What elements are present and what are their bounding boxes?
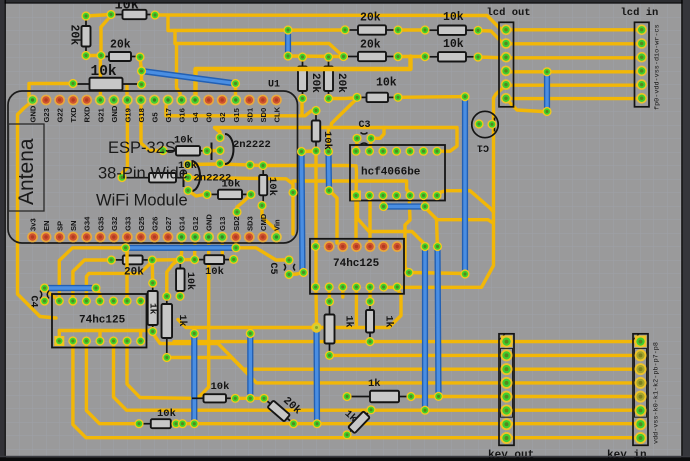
wire hcf right	[437, 191, 494, 212]
svg-text:20k: 20k	[360, 12, 381, 25]
wire	[126, 248, 128, 301]
wire	[289, 273, 303, 275]
pad	[117, 173, 126, 182]
pad	[433, 242, 442, 251]
svg-text:74hc125: 74hc125	[333, 258, 380, 270]
module pin G32 (bottom 7)	[108, 232, 119, 243]
pad	[283, 51, 292, 60]
wire (bottom copper)	[45, 285, 97, 291]
hcf4066be pin bottom 6	[419, 191, 428, 200]
svg-text:20k: 20k	[68, 25, 81, 46]
IC hcf4066be outline	[350, 145, 445, 201]
key in pin 3	[635, 363, 647, 375]
pad	[68, 79, 77, 88]
resistor R22 1k	[366, 302, 374, 342]
resistor R27 1k (diagonal)	[344, 407, 374, 438]
pad	[393, 93, 402, 102]
module pin TXD (top 4)	[68, 95, 79, 106]
wire	[354, 196, 357, 244]
pad	[379, 202, 388, 211]
hcf4066be pin bottom 3	[378, 191, 387, 200]
lcd in pin 4	[636, 66, 647, 77]
svg-text:10k: 10k	[205, 266, 224, 278]
resistor R12 10k	[312, 111, 321, 151]
74hc125 U4 pin top 2	[68, 296, 77, 305]
pad	[365, 297, 374, 306]
wire	[193, 237, 197, 260]
pad	[460, 269, 469, 278]
resistor R10 20k	[298, 57, 307, 99]
svg-text:Antena: Antena	[15, 138, 38, 205]
module pin G21 (top 6)	[95, 95, 106, 106]
module pin CLK (top 19)	[271, 95, 282, 106]
resistor R28 10k	[176, 262, 185, 296]
svg-text:G35: G35	[96, 216, 105, 231]
resistor R17 20k	[111, 256, 152, 265]
module pin G4 (top 13)	[190, 95, 201, 106]
wire G4 long rail	[196, 57, 411, 101]
svg-text:C1: C1	[477, 142, 489, 153]
ESP-32S module U1 outline	[8, 91, 298, 243]
module pin G17 (top 11)	[163, 95, 174, 106]
svg-text:10k: 10k	[91, 64, 117, 80]
pad	[202, 146, 211, 155]
module pin SD2 (bottom 16)	[230, 232, 241, 243]
pad	[404, 268, 413, 277]
pad	[289, 419, 298, 428]
resistor R23 10k	[139, 419, 176, 428]
pad	[178, 419, 187, 428]
wire to blue	[327, 128, 330, 152]
svg-text:C4: C4	[28, 296, 39, 308]
pad	[215, 146, 224, 155]
wire link	[302, 149, 317, 153]
74hc125 U4 pin bottom 3	[82, 336, 91, 345]
wire	[150, 260, 154, 283]
resistor R3 20k	[100, 52, 140, 61]
pad	[158, 146, 167, 155]
74hc125 U3 pin top 1	[311, 242, 320, 251]
lcd out pin 5	[501, 79, 512, 90]
module pin G18 (top 9)	[136, 95, 147, 106]
wire lcd pin6 to via	[506, 99, 547, 112]
svg-text:G26: G26	[150, 217, 159, 231]
svg-text:10k: 10k	[157, 408, 176, 420]
svg-text:10k: 10k	[443, 38, 464, 51]
wire G17 rail	[166, 100, 316, 116]
wire over 20k bodies	[298, 67, 341, 71]
capacitor C3	[361, 133, 368, 135]
74hc125 U4 pin bottom 6	[122, 336, 131, 345]
wire lcd bus	[507, 83, 641, 86]
pad	[460, 92, 469, 101]
svg-text:lcd in: lcd in	[621, 7, 659, 19]
pad	[352, 93, 361, 102]
resistor R1 10k	[111, 10, 155, 19]
wire row y273	[409, 273, 465, 274]
svg-text:U1: U1	[268, 80, 280, 91]
svg-text:74hc125: 74hc125	[79, 315, 126, 327]
pad	[420, 202, 429, 211]
pad	[137, 80, 146, 89]
wire stub to G15	[234, 84, 237, 100]
svg-text:G21: G21	[96, 107, 105, 122]
key in pin 7	[635, 418, 647, 430]
module pin RXD (top 5)	[81, 95, 92, 106]
wire	[355, 287, 358, 328]
hcf4066be pin bottom 2	[365, 191, 374, 200]
wire row y260	[152, 258, 194, 262]
pad	[162, 353, 171, 362]
pad	[183, 186, 192, 195]
pad	[393, 25, 402, 34]
resistor R24 10k	[192, 394, 235, 402]
svg-text:C3: C3	[359, 120, 371, 131]
svg-text:10k: 10k	[178, 160, 197, 172]
wire (bottom copper)	[544, 72, 550, 112]
wire row y165 to hcf pin1	[188, 164, 357, 196]
wire lcd bus	[507, 97, 641, 100]
antenna box	[9, 124, 45, 211]
module pin G23 (top 2)	[41, 95, 52, 106]
lcd out pin 2	[501, 38, 512, 49]
module pin SD1 (top 17)	[244, 95, 255, 106]
svg-text:G22: G22	[56, 108, 65, 122]
key out pin 2	[501, 349, 513, 361]
pad	[420, 242, 429, 251]
wire lcd bus	[507, 42, 641, 45]
pad	[259, 394, 268, 403]
74hc125 U4 pin top 4	[95, 296, 104, 305]
wire to G19	[125, 86, 129, 100]
module pin CMD (bottom 18)	[257, 232, 268, 243]
pad	[231, 243, 240, 252]
svg-text:SD0: SD0	[259, 108, 268, 123]
capacitor C1	[472, 111, 498, 137]
pad	[393, 52, 402, 61]
key in pin 2	[635, 349, 647, 361]
pad	[434, 392, 443, 401]
wire to Vin	[262, 206, 278, 238]
capacitor C5	[284, 264, 286, 271]
wire diag	[331, 100, 356, 128]
svg-text:EN: EN	[42, 220, 51, 231]
pad	[324, 147, 333, 156]
pad	[473, 26, 482, 35]
wire curve to U4 pin2	[73, 260, 111, 301]
wire	[221, 237, 224, 254]
wire to lcd out pin1	[155, 15, 505, 30]
svg-text:SD1: SD1	[245, 107, 254, 123]
module pin G15 (top 16)	[230, 95, 241, 106]
wire hcf interior to pin5	[293, 181, 410, 196]
module pin SP (bottom 3)	[54, 232, 65, 243]
pad	[246, 190, 255, 199]
wire row y43	[175, 31, 344, 57]
lcd out pin 3	[501, 52, 512, 63]
pad	[175, 292, 184, 301]
svg-text:G13: G13	[218, 217, 227, 231]
74hc125 U3 pin top 4	[351, 241, 362, 252]
wire	[139, 331, 142, 342]
svg-text:TXD: TXD	[69, 107, 78, 123]
wire Q1 rail to hcf	[215, 128, 458, 152]
module pin G5 (top 10)	[149, 95, 160, 106]
pad	[229, 255, 238, 264]
pad	[134, 419, 143, 428]
wire to lcd out pin2	[478, 31, 505, 44]
wire	[249, 328, 252, 334]
pad	[190, 255, 199, 264]
wire curve to U4 pin3	[86, 262, 152, 302]
pad	[176, 255, 185, 264]
module pin SD0 (top 18)	[257, 95, 268, 106]
svg-text:SD2: SD2	[232, 216, 241, 231]
pad	[190, 329, 199, 338]
wire	[398, 95, 465, 99]
lcd out pin 1	[501, 25, 512, 36]
key in pin 1	[635, 336, 647, 348]
wire	[58, 331, 61, 342]
pad	[366, 405, 375, 414]
junction pad	[311, 322, 321, 332]
resistor R14 10k	[122, 173, 184, 182]
74hc125 U3 pin bottom 6	[379, 282, 388, 291]
74hc125 U4 pin1 square pad	[54, 336, 64, 346]
74hc125 U4 pin bottom 1	[55, 336, 64, 345]
pad	[190, 419, 199, 428]
74hc125 U4 pin bottom 4	[95, 336, 104, 345]
key out pin1 square pad	[501, 336, 513, 348]
svg-text:C5: C5	[267, 263, 278, 275]
lcd in pin 5	[636, 79, 647, 90]
svg-text:20k: 20k	[124, 267, 144, 279]
pad	[245, 160, 254, 169]
wire (bottom copper)	[247, 334, 253, 399]
svg-text:SN: SN	[69, 220, 78, 231]
wire key bus 5	[411, 395, 640, 398]
header key out	[499, 334, 514, 446]
resistor R6 10k	[425, 26, 478, 35]
wire	[368, 287, 371, 302]
svg-text:G12: G12	[191, 217, 200, 231]
wire lcd pin5 long rail	[384, 85, 506, 287]
pad	[215, 159, 224, 168]
svg-text:G34: G34	[83, 216, 92, 231]
resistor R21 1k	[325, 302, 335, 356]
wire row y327	[178, 289, 401, 328]
wire	[328, 287, 332, 302]
wire right of 74hc125	[405, 197, 410, 273]
wire curve to U4 pin1	[59, 248, 125, 301]
wire lcd bus	[507, 56, 641, 59]
pad	[171, 419, 180, 428]
pad	[81, 51, 90, 60]
74hc125 U4 pin top 7	[136, 296, 145, 305]
svg-text:1k: 1k	[383, 316, 395, 328]
svg-text:lcd out: lcd out	[487, 7, 531, 19]
lcd out pin 6	[501, 93, 512, 104]
svg-text:ESP-32S: ESP-32S	[108, 139, 176, 157]
hcf4066be pin top 6	[419, 147, 428, 156]
svg-text:GND: GND	[29, 105, 38, 122]
resistor R13 10k	[163, 146, 207, 155]
wire	[423, 197, 425, 207]
pad	[298, 52, 307, 61]
pad	[366, 134, 375, 143]
74hc125 U3 pin bottom 3	[338, 282, 347, 291]
svg-text:20k: 20k	[360, 39, 381, 52]
module pin G14 (bottom 12)	[176, 232, 187, 243]
wire link	[300, 99, 303, 116]
module pin EN (bottom 2)	[41, 232, 52, 243]
wire (bottom copper)	[384, 203, 426, 209]
svg-text:20k: 20k	[110, 39, 131, 52]
lcd out pin 4	[501, 66, 512, 77]
wire	[368, 196, 371, 244]
header lcd out	[499, 22, 514, 107]
pad	[148, 327, 157, 336]
pad	[148, 278, 157, 287]
wire to G21	[99, 56, 103, 101]
svg-text:10k: 10k	[376, 77, 397, 90]
pad	[487, 120, 496, 129]
svg-text:2n2222: 2n2222	[194, 173, 232, 185]
header lcd in	[635, 22, 650, 107]
IC 74hc125 (U4) outline	[52, 294, 147, 348]
svg-text:G0: G0	[205, 112, 214, 122]
key out pin 1	[501, 336, 513, 348]
svg-text:10k: 10k	[184, 272, 196, 290]
resistor R4 10k	[73, 78, 142, 91]
74hc125 U4 pin top 1	[55, 296, 64, 305]
key out pin 3	[501, 363, 513, 375]
key in pin 8	[635, 432, 647, 444]
pad	[232, 207, 241, 216]
svg-text:WiFi Module: WiFi Module	[96, 192, 188, 210]
wire	[341, 287, 344, 297]
wire	[45, 289, 60, 301]
module pin GND (top 7)	[108, 95, 119, 106]
pad	[473, 52, 482, 61]
module pin G16 (top 12)	[176, 95, 187, 106]
svg-text:G5: G5	[150, 112, 159, 123]
wire to 10k	[127, 341, 192, 398]
74hc125 U3 pin top 6	[378, 241, 389, 252]
pad	[542, 107, 551, 116]
svg-text:G27: G27	[164, 217, 173, 231]
svg-text:G33: G33	[123, 217, 132, 231]
wire long vertical x316	[314, 151, 318, 328]
svg-text:1k: 1k	[343, 316, 355, 328]
wire stub	[207, 149, 220, 153]
wire lcd bus	[507, 70, 641, 73]
svg-text:CMD: CMD	[259, 213, 268, 231]
resistor R16 10k	[259, 166, 267, 206]
wire (bottom copper)	[313, 329, 320, 424]
pad	[339, 52, 348, 61]
pad	[215, 133, 224, 142]
resistor R9 10k	[357, 93, 398, 102]
module pin G22 (top 3)	[54, 95, 65, 106]
svg-text:G15: G15	[232, 107, 241, 122]
wire (bottom copper)	[302, 152, 303, 273]
module pin G34 (bottom 5)	[81, 232, 92, 243]
74hc125 U3 pin bottom 4	[352, 282, 361, 291]
hcf4066be pin top 4	[392, 147, 401, 156]
pad	[231, 394, 240, 403]
wire	[345, 435, 348, 438]
pad	[202, 190, 211, 199]
wire to blue via 2	[425, 208, 438, 247]
module pin SD3 (bottom 17)	[244, 232, 255, 243]
transistor Q2 2n2222	[184, 161, 201, 191]
pad	[288, 188, 297, 197]
svg-text:hcf4066be: hcf4066be	[361, 167, 421, 179]
svg-text:G17: G17	[164, 108, 173, 122]
wire branch	[437, 220, 494, 223]
74hc125 U4 pin bottom 7	[136, 336, 145, 345]
pad	[121, 243, 130, 252]
wire via to C5	[236, 248, 289, 260]
wire lcd bus	[507, 28, 641, 31]
resistor R7 20k	[344, 52, 399, 61]
pad	[298, 94, 307, 103]
svg-text:SP: SP	[56, 221, 65, 231]
wire	[86, 54, 100, 57]
key out pin 7	[501, 418, 513, 430]
svg-text:10k: 10k	[443, 11, 464, 24]
74hc125 U3 pin bottom 1	[311, 282, 320, 291]
module pin SN (bottom 4)	[68, 232, 79, 243]
key out pin 4	[501, 377, 513, 389]
wire	[355, 138, 359, 151]
wire link	[329, 96, 356, 100]
pad	[325, 297, 334, 306]
74hc125 U3 pin bottom 7	[393, 282, 402, 291]
module pin G0 (top 14)	[203, 95, 214, 106]
wire key bus 8	[73, 341, 640, 438]
pad	[81, 11, 90, 20]
pad	[257, 201, 266, 210]
wire stub	[140, 71, 143, 85]
pad	[135, 52, 144, 61]
module pin GND (bottom 14)	[203, 232, 214, 243]
svg-text:G19: G19	[123, 108, 132, 122]
wire	[398, 55, 425, 58]
svg-text:G2: G2	[218, 112, 227, 122]
wire (bottom copper)	[422, 247, 428, 411]
hcf4066be pin1 square pad	[351, 191, 361, 201]
wire key bus 7	[176, 422, 640, 425]
module pin GND (top 1)	[27, 95, 38, 106]
key out pin 5	[501, 391, 513, 403]
resistor R2 20k	[82, 16, 91, 56]
pad	[312, 419, 321, 428]
pad	[183, 160, 192, 169]
wire	[180, 237, 181, 260]
wire key bus 1	[174, 340, 640, 343]
pad	[246, 329, 255, 338]
wire row y398	[235, 397, 264, 400]
svg-text:2n2222: 2n2222	[233, 139, 271, 151]
resistor R8 10k	[425, 52, 478, 61]
pad	[231, 79, 240, 88]
74hc125 U4 pin bottom 5	[109, 336, 118, 345]
hcf4066be pin bottom 5	[405, 191, 414, 200]
svg-text:G16: G16	[178, 108, 187, 122]
module pin G13 (bottom 15)	[217, 232, 228, 243]
